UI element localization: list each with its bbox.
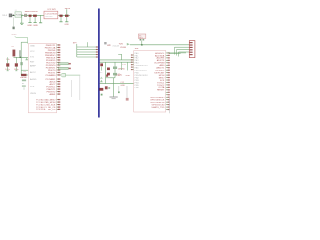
component (126, 98, 129, 101)
label VBUS (119, 43, 130, 46)
wire (20, 57, 22, 75)
wire (21, 15, 23, 23)
svg-text:X1-1: X1-1 (2, 15, 7, 17)
net arrow (60, 73, 65, 77)
junction (118, 91, 120, 93)
wire (15, 37, 28, 38)
wire (122, 62, 128, 70)
wire (106, 77, 115, 79)
svg-text:RESET: RESET (157, 90, 165, 92)
junction (21, 15, 22, 16)
svg-text:16MHz: 16MHz (118, 68, 125, 70)
label (118, 74, 122, 76)
wire (14, 56, 29, 58)
label (73, 42, 77, 44)
IC3 lower pin names (36, 98, 47, 111)
label (100, 72, 104, 74)
ground (20, 23, 24, 24)
wire (130, 44, 189, 46)
svg-text:100u: 100u (33, 11, 38, 13)
ground (110, 97, 118, 99)
label C6 (5, 69, 10, 71)
svg-text:IN OUT: IN OUT (46, 16, 54, 18)
resistor R1 (13, 50, 16, 57)
value label (33, 11, 38, 13)
svg-text:GND: GND (33, 25, 38, 27)
resistor R2 (21, 74, 26, 76)
wire (12, 17, 14, 26)
wire (21, 42, 27, 57)
svg-text:mini-B: mini-B (113, 45, 120, 47)
component (105, 86, 110, 89)
wire (100, 59, 134, 61)
capacitor C9 (107, 73, 110, 76)
supply VCC (65, 8, 71, 15)
wire (60, 17, 62, 22)
svg-text:GND: GND (126, 75, 131, 77)
wire (27, 74, 29, 76)
svg-text:+5V: +5V (119, 43, 124, 45)
svg-text:UART0_TXD: UART0_TXD (152, 106, 165, 109)
svg-text:AGND: AGND (30, 78, 37, 81)
wire (100, 61, 134, 63)
svg-text:R1: R1 (12, 46, 15, 48)
ground (13, 27, 15, 30)
svg-text:SPI: SPI (73, 42, 77, 44)
bus line (98, 9, 100, 118)
svg-text:+3V3: +3V3 (65, 8, 71, 10)
diode D1 (24, 14, 27, 17)
svg-text:RST: RST (30, 62, 35, 64)
ground (59, 21, 62, 23)
fuse F1 (15, 12, 22, 17)
IC3 left pin names (30, 45, 37, 95)
regulator IC1 (44, 11, 58, 19)
svg-text:S1: S1 (22, 83, 25, 85)
wire (66, 17, 68, 22)
wire (169, 97, 171, 113)
wire (12, 14, 44, 16)
value label (25, 11, 34, 13)
IC2 right net labels (150, 52, 165, 109)
wire (126, 86, 128, 98)
wire (40, 15, 42, 22)
ground (65, 21, 68, 23)
bus tap wires (77, 46, 98, 57)
wire (169, 53, 181, 55)
IC3 right pins (57, 44, 61, 110)
wire (34, 17, 36, 22)
capacitor C6 (6, 63, 9, 66)
label GND (27, 25, 38, 27)
svg-text:GND: GND (27, 25, 32, 27)
capacitor C8 (107, 68, 110, 71)
supply arrow (100, 77, 103, 83)
label GND (64, 24, 69, 26)
wire (140, 39, 145, 45)
wire (118, 86, 120, 91)
ground (101, 94, 103, 96)
wire (7, 57, 9, 70)
wire (76, 44, 78, 57)
crystal Q1 (113, 62, 117, 78)
svg-text:AREF: AREF (30, 64, 36, 67)
microcontroller IC3 (28, 44, 56, 113)
wire (21, 69, 28, 71)
ground (7, 70, 9, 72)
svg-text:VBUS: VBUS (30, 93, 36, 95)
svg-text:GND: GND (64, 24, 69, 26)
diode D2 (100, 63, 103, 66)
wire (101, 67, 103, 71)
svg-text:R2: R2 (24, 71, 28, 73)
ground (34, 21, 37, 23)
svg-text:RESET: RESET (20, 77, 28, 79)
connector J1 (9, 14, 12, 18)
connector J1 label (2, 15, 7, 17)
label (122, 64, 127, 66)
svg-text:10k: 10k (6, 59, 10, 61)
switch S1 (22, 80, 26, 87)
wire (105, 62, 107, 83)
label (24, 71, 28, 73)
transistor T1 (138, 34, 145, 39)
junction (29, 77, 31, 79)
label (20, 77, 28, 79)
label IC2 (135, 48, 139, 50)
microcontroller IC2 (134, 51, 166, 112)
svg-text:SD_CD: SD_CD (48, 109, 56, 111)
svg-text:XTAL1: XTAL1 (116, 74, 123, 77)
IC3 pin labels (45, 45, 56, 111)
svg-text:C11: C11 (122, 64, 127, 66)
svg-text:GND: GND (120, 85, 125, 87)
capacitor C4 (65, 15, 69, 17)
wire (27, 38, 29, 44)
wire (79, 75, 81, 100)
capacitor C10 (99, 88, 103, 91)
IC2 right pins (166, 52, 170, 110)
component (20, 62, 23, 65)
wire (15, 57, 17, 70)
wires to J2 (175, 47, 190, 56)
svg-text:usb: usb (107, 45, 111, 47)
svg-text:FUSE: FUSE (16, 15, 22, 17)
supply arrow (25, 58, 28, 61)
wire (118, 54, 121, 60)
net flag (59, 63, 71, 70)
label C7 (14, 69, 19, 71)
capacitor C2 (33, 15, 37, 17)
capacitor C7 (15, 63, 18, 66)
capacitor C5 (19, 50, 21, 56)
svg-text:PD6/AIN0: PD6/AIN0 (46, 74, 57, 77)
label (113, 45, 127, 48)
svg-text:VUSB: VUSB (120, 47, 126, 49)
svg-text:AVCC: AVCC (30, 71, 36, 74)
ground (28, 21, 31, 23)
net labels (106, 74, 131, 77)
ground (39, 22, 42, 24)
capacitor C1 (29, 15, 32, 17)
junction (141, 44, 143, 46)
wire (168, 52, 186, 54)
svg-text:IC2: IC2 (135, 48, 139, 50)
svg-text:AREF: AREF (50, 93, 56, 96)
label IC1 (48, 9, 57, 11)
junction (20, 57, 22, 59)
logo (104, 42, 111, 47)
wire (71, 80, 73, 97)
svg-text:PC4/SDA: PC4/SDA (36, 108, 46, 111)
wire (65, 74, 80, 76)
wire (58, 14, 70, 16)
capacitor C3 (59, 15, 62, 17)
labels (120, 82, 125, 87)
connector J2 (189, 41, 195, 58)
ground (15, 70, 17, 72)
wire (87, 42, 89, 47)
svg-text:GND: GND (12, 34, 17, 36)
svg-text:D2: D2 (100, 72, 104, 74)
wire (23, 87, 25, 90)
junction (13, 15, 14, 16)
label F1 (15, 10, 18, 12)
wire (113, 78, 115, 97)
wire (29, 17, 31, 22)
wire (100, 83, 134, 85)
IC2 left pins (131, 54, 134, 70)
svg-text:VCC: VCC (30, 51, 35, 53)
label (12, 34, 17, 36)
label Q1 (118, 68, 125, 70)
IC2 left pin names (135, 52, 149, 89)
svg-text:IC1 3V3: IC1 3V3 (48, 9, 57, 11)
svg-text:GND: GND (30, 45, 35, 47)
label R1 (6, 46, 15, 61)
